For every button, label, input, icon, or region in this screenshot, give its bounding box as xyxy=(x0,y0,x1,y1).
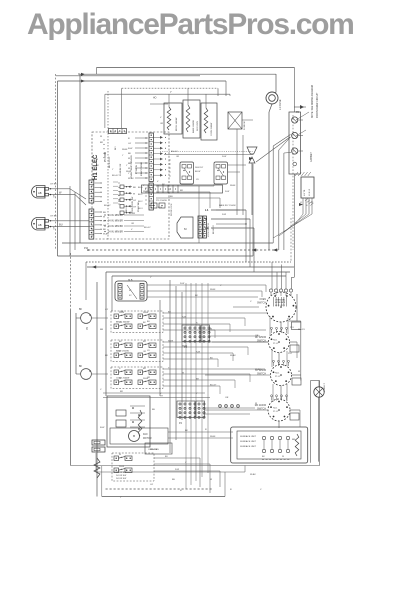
svg-text:GY: GY xyxy=(128,143,132,145)
svg-text:H2-1: H2-1 xyxy=(275,373,280,375)
svg-text:R: R xyxy=(180,490,182,492)
svg-text:R-W: R-W xyxy=(175,469,179,471)
svg-text:W: W xyxy=(103,216,106,218)
svg-text:H2-1: H2-1 xyxy=(273,340,278,342)
svg-text:MOTOR: MOTOR xyxy=(143,438,152,440)
svg-text:GY: GY xyxy=(196,179,200,181)
svg-text:W-BK: W-BK xyxy=(210,436,216,438)
svg-text:OVEN LT: OVEN LT xyxy=(324,383,326,392)
svg-text:Y: Y xyxy=(128,173,130,175)
svg-text:BR: BR xyxy=(120,391,123,393)
svg-text:N: N xyxy=(205,217,207,221)
svg-text:OR: OR xyxy=(54,194,56,198)
svg-text:RLY: RLY xyxy=(115,146,117,150)
svg-text:V: V xyxy=(157,181,159,183)
svg-text:NOTE: SEE WIRING DIAGRAM: NOTE: SEE WIRING DIAGRAM xyxy=(311,85,314,118)
svg-text:BR: BR xyxy=(100,142,103,144)
svg-text:R-W: R-W xyxy=(225,191,229,193)
svg-text:BK W R GY: BK W R GY xyxy=(109,156,111,168)
svg-text:BK: BK xyxy=(79,309,83,311)
svg-text:BU: BU xyxy=(103,212,106,214)
svg-text:BU: BU xyxy=(165,456,168,458)
svg-text:P8: P8 xyxy=(296,111,300,114)
svg-text:BU: BU xyxy=(170,196,173,198)
svg-text:BAKE RLY 1500W: BAKE RLY 1500W xyxy=(219,204,236,207)
svg-text:BK-W: BK-W xyxy=(195,171,200,173)
svg-text:24 IN. MIN BR: 24 IN. MIN BR xyxy=(108,221,123,223)
svg-text:R-W: R-W xyxy=(128,148,133,150)
svg-text:W: W xyxy=(100,136,102,138)
svg-text:RR 2100W: RR 2100W xyxy=(255,405,267,407)
svg-text:AB: AB xyxy=(38,191,42,195)
svg-text:BR: BR xyxy=(180,190,183,192)
svg-text:R-W: R-W xyxy=(222,156,226,158)
svg-text:GY: GY xyxy=(150,484,154,486)
svg-text:DOOR SW: DOOR SW xyxy=(116,475,126,477)
svg-text:L1: L1 xyxy=(205,208,209,212)
svg-text:OVEN SEL: OVEN SEL xyxy=(275,300,286,302)
svg-text:W-BK: W-BK xyxy=(255,369,261,371)
svg-text:BU-GY: BU-GY xyxy=(112,175,119,177)
svg-text:V: V xyxy=(260,489,262,491)
svg-text:BK: BK xyxy=(128,153,131,155)
svg-text:R-W: R-W xyxy=(222,214,226,216)
svg-text:BK-3: BK-3 xyxy=(138,208,143,210)
svg-text:W-BK: W-BK xyxy=(230,355,236,357)
svg-text:BK: BK xyxy=(143,322,146,324)
svg-text:DLB: DLB xyxy=(128,280,133,282)
svg-text:Y: Y xyxy=(290,295,292,297)
svg-text:P1 L2: P1 L2 xyxy=(273,343,279,345)
svg-text:BK: BK xyxy=(105,355,108,357)
svg-text:OR: OR xyxy=(54,226,56,230)
svg-text:BAKE 2550W: BAKE 2550W xyxy=(116,350,129,353)
svg-text:BR: BR xyxy=(292,439,295,441)
svg-text:P6 W-BK OR: P6 W-BK OR xyxy=(120,163,122,176)
svg-text:GY: GY xyxy=(133,207,137,209)
svg-text:L1 FUSE: L1 FUSE xyxy=(278,99,282,110)
svg-text:W-BK: W-BK xyxy=(122,149,128,151)
svg-text:BK-0: BK-0 xyxy=(138,187,143,189)
svg-text:R: R xyxy=(205,429,207,431)
svg-text:BU: BU xyxy=(59,223,63,227)
svg-text:DOOR SW: DOOR SW xyxy=(116,472,126,474)
svg-text:OVEN: OVEN xyxy=(259,299,266,301)
svg-text:V: V xyxy=(220,285,222,287)
svg-text:BR: BR xyxy=(143,368,146,370)
svg-text:OR: OR xyxy=(120,311,124,313)
svg-text:R-W: R-W xyxy=(180,283,184,285)
svg-text:MEAT PROBE: MEAT PROBE xyxy=(140,161,143,176)
svg-text:BU-GY: BU-GY xyxy=(210,384,217,386)
svg-text:SWITCH: SWITCH xyxy=(257,303,266,305)
svg-text:GY: GY xyxy=(105,309,109,311)
svg-text:R-W: R-W xyxy=(158,207,162,209)
svg-text:W: W xyxy=(133,194,136,196)
svg-text:DLB RLY: DLB RLY xyxy=(195,167,204,169)
svg-text:OR: OR xyxy=(225,397,229,399)
svg-text:R-W: R-W xyxy=(182,316,186,318)
svg-text:P5 CONN: P5 CONN xyxy=(105,151,107,162)
svg-text:DOOR LOCK: DOOR LOCK xyxy=(171,203,173,216)
svg-text:P4 BK-W: P4 BK-W xyxy=(244,121,246,130)
svg-text:L1 N L2: L1 N L2 xyxy=(309,188,311,196)
svg-text:BAKE 2800W: BAKE 2800W xyxy=(192,120,195,133)
svg-text:24 IN. MIN BR: 24 IN. MIN BR xyxy=(108,226,123,228)
svg-text:SURFACE UNIT: SURFACE UNIT xyxy=(240,445,257,448)
svg-text:OR: OR xyxy=(255,335,259,337)
svg-text:L2: L2 xyxy=(311,202,314,204)
svg-text:L2: L2 xyxy=(205,226,209,230)
svg-text:SURFACE UNIT: SURFACE UNIT xyxy=(240,440,257,443)
svg-text:24 IN. MIN BR: 24 IN. MIN BR xyxy=(108,215,123,217)
svg-text:BU-GY: BU-GY xyxy=(171,151,178,153)
svg-text:L1: L1 xyxy=(300,202,303,204)
svg-text:BK-2: BK-2 xyxy=(126,207,128,212)
svg-text:P4: P4 xyxy=(179,422,183,425)
svg-text:P1 L2: P1 L2 xyxy=(275,376,281,378)
svg-text:BK: BK xyxy=(262,456,265,458)
svg-text:M: M xyxy=(184,227,187,231)
svg-text:V: V xyxy=(250,301,252,303)
svg-text:W: W xyxy=(133,213,136,215)
svg-text:OR: OR xyxy=(176,156,180,158)
svg-text:SURFACE UNIT: SURFACE UNIT xyxy=(240,435,257,438)
svg-text:W-BK: W-BK xyxy=(168,340,174,342)
svg-text:BK: BK xyxy=(119,341,122,343)
svg-text:W: W xyxy=(59,191,62,195)
svg-text:BU-GY: BU-GY xyxy=(144,227,151,229)
svg-text:Y: Y xyxy=(120,497,122,499)
svg-text:W-BK: W-BK xyxy=(250,474,256,476)
svg-text:W: W xyxy=(119,454,121,456)
svg-text:P11 1500W: P11 1500W xyxy=(156,200,167,202)
svg-text:OR: OR xyxy=(147,377,151,379)
svg-text:CABINET: CABINET xyxy=(310,151,313,162)
svg-text:W: W xyxy=(282,456,284,458)
svg-text:BROIL 3400W: BROIL 3400W xyxy=(116,322,129,324)
svg-text:GY: GY xyxy=(147,350,151,352)
svg-text:BK: BK xyxy=(133,187,136,189)
svg-text:L1 N L2 P1: L1 N L2 P1 xyxy=(275,305,286,307)
svg-text:P7 BK-W: P7 BK-W xyxy=(136,164,138,174)
svg-text:FOR BLOWER CIRCUIT: FOR BLOWER CIRCUIT xyxy=(317,92,319,118)
svg-text:BR: BR xyxy=(143,341,146,343)
svg-text:GY: GY xyxy=(133,200,137,202)
svg-text:AB: AB xyxy=(38,223,42,227)
svg-text:N: N xyxy=(306,205,308,207)
svg-text:BU-GY: BU-GY xyxy=(104,205,111,207)
svg-text:W: W xyxy=(118,201,120,203)
svg-text:R: R xyxy=(128,138,130,140)
svg-text:OR: OR xyxy=(131,223,135,225)
svg-text:BK: BK xyxy=(79,366,83,368)
svg-text:GY: GY xyxy=(160,396,164,398)
svg-text:GY BK: GY BK xyxy=(50,184,57,186)
svg-text:V: V xyxy=(131,229,133,231)
svg-text:240V 208V: 240V 208V xyxy=(197,120,199,131)
svg-text:BK: BK xyxy=(185,430,188,432)
svg-text:H1 TB: H1 TB xyxy=(304,189,306,196)
svg-text:Y: Y xyxy=(150,277,152,279)
svg-text:W: W xyxy=(96,159,98,161)
svg-text:V: V xyxy=(185,462,187,464)
svg-text:P1 L2: P1 L2 xyxy=(273,411,279,413)
svg-text:R: R xyxy=(230,489,232,491)
svg-text:BROIL 3600W: BROIL 3600W xyxy=(176,118,178,131)
svg-text:24 IN. MIN BR: 24 IN. MIN BR xyxy=(108,232,123,234)
svg-text:BU-GY: BU-GY xyxy=(298,329,305,331)
svg-text:W-BK: W-BK xyxy=(126,171,132,173)
svg-text:CONV 2500W: CONV 2500W xyxy=(116,378,129,380)
svg-text:BR: BR xyxy=(100,329,103,331)
svg-text:V: V xyxy=(160,117,162,119)
svg-text:DOOR LOCK SW: DOOR LOCK SW xyxy=(132,196,134,214)
svg-text:R: R xyxy=(119,368,121,370)
svg-text:V: V xyxy=(100,389,102,391)
svg-text:CONV 2500W: CONV 2500W xyxy=(211,123,213,136)
svg-text:P2: P2 xyxy=(86,326,89,330)
svg-text:P14: P14 xyxy=(288,353,292,355)
svg-text:W-BK: W-BK xyxy=(210,289,216,291)
svg-text:RF 1250W: RF 1250W xyxy=(255,337,267,339)
svg-text:Y: Y xyxy=(170,90,172,94)
svg-text:Y: Y xyxy=(126,165,128,167)
svg-text:W: W xyxy=(118,195,120,197)
svg-text:W-BK: W-BK xyxy=(143,312,149,314)
svg-text:BK-W GY: BK-W GY xyxy=(213,224,215,234)
svg-text:W-BK: W-BK xyxy=(230,185,236,187)
svg-text:BK: BK xyxy=(103,229,106,231)
svg-text:Y: Y xyxy=(112,169,114,171)
svg-text:R-W: R-W xyxy=(196,351,200,353)
svg-text:BK-1: BK-1 xyxy=(138,194,143,196)
svg-text:W-BK: W-BK xyxy=(119,466,125,468)
svg-text:P9 GY-BK: P9 GY-BK xyxy=(138,202,140,212)
svg-text:R-W: R-W xyxy=(100,427,105,429)
svg-text:DOOR SW: DOOR SW xyxy=(116,478,126,480)
svg-text:H2-1: H2-1 xyxy=(273,408,278,410)
svg-text:HO: HO xyxy=(153,98,157,100)
svg-text:BK: BK xyxy=(195,295,198,297)
svg-text:W: W xyxy=(119,378,121,380)
svg-text:BU-GY: BU-GY xyxy=(150,449,157,451)
svg-text:H2 BK W R: H2 BK W R xyxy=(275,302,286,304)
svg-text:K2: K2 xyxy=(129,295,132,297)
svg-text:OVEN TEMP SENSOR: OVEN TEMP SENSOR xyxy=(131,155,133,178)
svg-text:OR: OR xyxy=(160,123,164,125)
svg-text:W: W xyxy=(210,479,213,481)
svg-text:GY BK: GY BK xyxy=(50,216,57,218)
svg-text:Y: Y xyxy=(122,155,124,157)
svg-text:BU: BU xyxy=(147,321,150,323)
svg-text:BK-2: BK-2 xyxy=(138,201,143,203)
svg-text:BU: BU xyxy=(172,479,175,481)
svg-text:BU: BU xyxy=(152,409,155,411)
svg-text:Y: Y xyxy=(196,393,198,395)
svg-text:FAN: FAN xyxy=(143,433,148,436)
svg-text:P13: P13 xyxy=(290,327,294,329)
svg-text:W-BK: W-BK xyxy=(103,234,109,236)
